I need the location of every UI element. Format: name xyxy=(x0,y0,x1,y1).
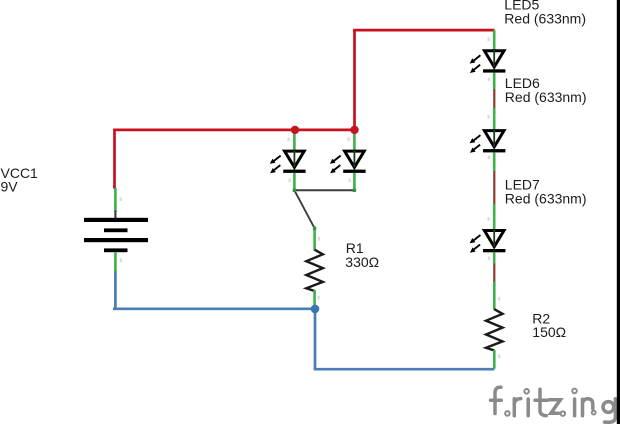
node: green junction left LED cathode xyxy=(293,189,296,192)
LED6 anode pin xyxy=(493,108,496,131)
right border bar xyxy=(617,0,620,424)
wire: red vertical down to battery top xyxy=(113,129,116,189)
wire: red top horizontal to LED5 xyxy=(353,29,494,32)
LED3 symbol (mid-left) xyxy=(270,150,306,173)
wire: red vertical from right junction up xyxy=(353,30,356,132)
svg-text:Red (633nm): Red (633nm) xyxy=(505,190,587,206)
wire: blue bottom horizontal to R2 xyxy=(314,368,495,371)
battery VCC1 bottom pin xyxy=(114,252,117,272)
wire: red segment LED6 to LED7 xyxy=(493,170,495,205)
svg-text:Red (633nm): Red (633nm) xyxy=(504,10,586,26)
LED7 symbol xyxy=(470,230,506,253)
battery VCC1 top pin xyxy=(114,188,117,212)
LED6 symbol xyxy=(470,130,506,153)
junction dot red right xyxy=(350,126,358,134)
junction dot blue at R1 bottom xyxy=(311,305,320,314)
resistor R2 bottom pin xyxy=(493,350,496,369)
LED3 anode pin (mid-left) xyxy=(293,130,296,152)
LED7 anode pin xyxy=(493,204,496,231)
LED6 cathode pin xyxy=(493,152,496,171)
resistor R2 top pin xyxy=(493,282,496,311)
wire: blue vertical below R1 node xyxy=(314,309,317,369)
pin number labels (faint) xyxy=(120,38,501,359)
LED7 cathode pin xyxy=(493,252,496,263)
LED4 cathode pin xyxy=(353,173,356,191)
LED4 anode pin (mid-right) xyxy=(353,130,356,152)
wire: red segment LED5 to LED6 xyxy=(493,88,495,109)
resistor R2 body xyxy=(486,309,503,350)
node: green junction R1 top xyxy=(313,227,316,230)
node: green junction right LED cathode xyxy=(353,189,356,192)
battery VCC1 plates xyxy=(84,218,148,252)
wire: red main horizontal from battery top to mid junctions xyxy=(113,129,356,132)
svg-text:150Ω: 150Ω xyxy=(532,324,566,340)
wire: black diagonal to R1 xyxy=(294,190,314,228)
fritzing logo xyxy=(491,387,616,422)
svg-text:Red (633nm): Red (633nm) xyxy=(505,89,587,105)
LED5 anode pin xyxy=(493,30,496,52)
LED5 symbol xyxy=(470,50,506,73)
LED4 symbol (mid-right) xyxy=(330,150,366,173)
battery VCC1 top lead xyxy=(114,211,116,219)
wire: black horizontal between mid LED cathodes xyxy=(294,189,354,191)
svg-text:9V: 9V xyxy=(1,178,19,194)
wire: red segment LED7 to R2 xyxy=(493,263,495,283)
resistor R1 bottom pin xyxy=(313,290,316,309)
resistor R1 top pin xyxy=(313,228,316,251)
LED5 cathode pin xyxy=(493,73,496,89)
svg-text:330Ω: 330Ω xyxy=(345,254,379,270)
junction dot red left xyxy=(291,126,299,134)
wire: blue battery bottom vertical xyxy=(114,270,117,309)
resistor R1 body xyxy=(306,250,323,291)
wire: blue horizontal battery to R1 node xyxy=(113,307,315,310)
LED3 cathode pin xyxy=(293,173,296,191)
